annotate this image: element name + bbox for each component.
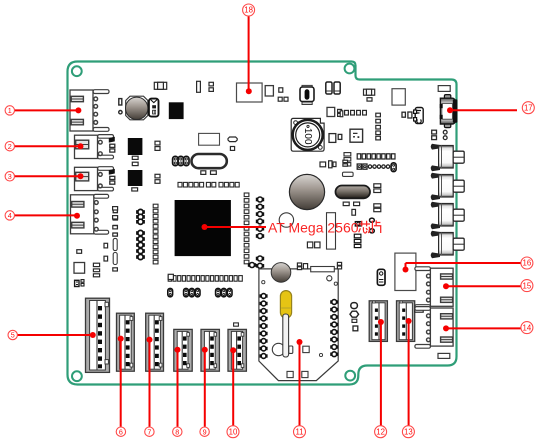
callout 9 <box>200 427 209 436</box>
white IC (199,133) <box>199 133 220 145</box>
yellow capacitor on module <box>280 291 291 318</box>
connector 12 <box>369 301 387 342</box>
module small squares <box>287 346 309 377</box>
module right hole column <box>330 300 338 357</box>
white ring (286,220) <box>279 213 293 227</box>
svg-text:18: 18 <box>244 6 253 15</box>
inductor L1 "100" <box>291 118 324 151</box>
vertical part (197,81) <box>197 81 201 92</box>
svg-text:5: 5 <box>11 331 15 340</box>
small rect (327,107) <box>327 107 335 116</box>
pads below crystal <box>201 171 217 175</box>
red leader line 8 <box>175 347 181 427</box>
red leader line 11 <box>297 339 303 426</box>
connector 15 (4-pin right) <box>415 267 453 309</box>
header hole group (5) left of chip <box>136 230 145 259</box>
vertical hole trio group B (216-232,292) <box>216 288 232 296</box>
connector 10 <box>228 329 246 371</box>
red leader line 10 <box>230 347 236 426</box>
crystal Y1 <box>192 154 227 168</box>
IC (350,129) <box>350 129 363 142</box>
red leader line 4 <box>14 213 80 219</box>
module left hole column <box>260 294 268 359</box>
transistor pack (415,107) <box>414 108 424 124</box>
resistor (363,89) <box>364 89 375 101</box>
tiny pads (278,88) <box>278 88 288 101</box>
white rect above USB <box>438 86 450 92</box>
parts above module <box>297 262 341 269</box>
callout 12 <box>375 426 387 438</box>
red leader line 18 <box>246 16 252 94</box>
white bar (342,172) <box>343 172 354 176</box>
red leader line 15 <box>443 283 521 289</box>
white square (74,262) <box>74 263 85 274</box>
vertical slots (113,238) <box>113 238 117 264</box>
pad column (344,152) <box>344 153 351 166</box>
black chip S1 (169,102) <box>169 102 184 119</box>
svg-text:10: 10 <box>229 427 238 436</box>
svg-text:8: 8 <box>175 427 179 436</box>
svg-text:3: 3 <box>8 172 12 181</box>
red leader line 3 <box>14 173 83 179</box>
RTC battery module (item 11) <box>259 263 338 381</box>
red leader line 9 <box>202 347 208 427</box>
dark pill (335,185) <box>336 186 371 199</box>
label chinese char 'xin' <box>358 221 370 233</box>
small can beside capacitor <box>149 99 159 117</box>
connector 5 (large bottom header) <box>86 298 110 372</box>
small part (229,136) <box>228 137 237 150</box>
pads below pill <box>343 202 359 215</box>
callout 11 <box>294 426 306 438</box>
callout 5 <box>8 330 17 339</box>
small rect right of IC18 <box>265 86 273 96</box>
pads right of connector 1 <box>119 99 122 114</box>
header hole group (3) left of chip <box>136 209 145 224</box>
module stem <box>272 314 293 357</box>
dual pad row A (356,153) <box>357 154 395 159</box>
black chip S3 (128,170) <box>128 170 143 186</box>
IC 16 (white box) <box>395 253 416 290</box>
red leader line 5 <box>18 332 96 338</box>
board outline <box>68 62 457 385</box>
dual pad row B with holes (359,163) <box>357 163 396 172</box>
svg-text:15: 15 <box>523 281 532 290</box>
mounting hole top-left <box>72 66 82 76</box>
callout 17 <box>522 102 534 114</box>
callout 14 <box>521 322 533 334</box>
svg-text:17: 17 <box>524 103 533 112</box>
svg-text:11: 11 <box>295 427 303 436</box>
pads right of S2 <box>155 141 160 150</box>
svg-text:6: 6 <box>119 427 123 436</box>
pads right of connector 4 <box>113 210 117 236</box>
svg-text:16: 16 <box>523 259 532 268</box>
parts right of connector 2 <box>109 137 115 152</box>
svg-text:14: 14 <box>523 323 532 332</box>
svg-text:12: 12 <box>376 427 385 436</box>
connector 3 (2-pin, left edge) <box>75 167 114 191</box>
bars right of connector 13 <box>415 306 423 312</box>
svg-text:9: 9 <box>203 427 207 436</box>
mini USB connector (item 17) <box>440 95 458 128</box>
mounting hole bottom-right <box>345 371 355 381</box>
pad pair (209,82) <box>209 82 213 91</box>
red leader line 6 <box>118 336 124 427</box>
pad column (376,113) <box>376 113 381 140</box>
red leader line 1 <box>14 107 81 113</box>
svg-text:7: 7 <box>147 427 151 436</box>
chip pad row bottom <box>168 276 242 282</box>
connector 9 <box>201 329 219 371</box>
callout 7 <box>145 427 154 436</box>
pads right of S3 <box>155 174 160 183</box>
pads (402,112) and (408,112) <box>402 112 412 118</box>
connector 4 (4-pin, left edge) <box>71 194 109 234</box>
red leader line 7 <box>147 337 153 427</box>
label chinese char 'pian' <box>372 220 381 233</box>
pad (77,250) <box>77 250 82 254</box>
electrolytic capacitor C (octagon + sphere) <box>126 96 148 120</box>
connector 2 (2-pin, left edge) <box>75 135 114 159</box>
microcontroller U1 AT Mega 2560 <box>175 200 231 256</box>
pad trio (93,263) <box>93 263 99 277</box>
callout 4 <box>5 211 14 220</box>
callout 2 <box>5 142 14 151</box>
vertical hole trio group A (184-200,292) <box>184 288 200 296</box>
connector 14 (4-pin right) <box>415 307 453 349</box>
tall white rect (326,213) <box>327 213 336 249</box>
parts right of connector 3 <box>109 169 115 184</box>
two vertical caps (326,82) <box>326 82 340 94</box>
red leader line 16 <box>403 263 521 273</box>
pads left of jacks <box>432 130 447 139</box>
white square (392,89) <box>392 89 405 105</box>
callout 16 <box>521 257 533 269</box>
pad below connector 14 area <box>438 353 450 358</box>
jack connector D <box>431 231 465 258</box>
callout 1 <box>5 106 14 115</box>
svg-text:1: 1 <box>8 106 12 115</box>
pad pairs right (374,184) <box>374 184 381 212</box>
pads and vias near label <box>354 218 374 248</box>
small parts (320,161) <box>320 160 348 168</box>
svg-text:2: 2 <box>8 142 12 151</box>
callout 18 <box>243 4 255 16</box>
connector 13 <box>397 301 415 342</box>
svg-text:4: 4 <box>8 211 12 220</box>
svg-text:13: 13 <box>404 427 413 436</box>
chip pad column left <box>153 204 158 264</box>
connector 6 <box>117 313 135 371</box>
red leader line 17 <box>447 107 517 113</box>
mounting hole bottom-left <box>72 371 82 381</box>
pad row (340-368,111) small row under notch <box>340 111 343 117</box>
red leader line 2 <box>14 143 83 149</box>
red leader line 13 <box>406 318 412 426</box>
red leader line 14 <box>443 325 521 331</box>
callout 6 <box>116 427 125 436</box>
callout 3 <box>5 172 14 181</box>
svg-text:AT Mega 2560: AT Mega 2560 <box>268 219 359 235</box>
left small pads column (113,206-271) <box>113 207 118 271</box>
pad above connector 10 <box>234 323 239 326</box>
header hole column right of chip <box>256 197 264 268</box>
oval hole (170,292) <box>168 288 173 296</box>
pads left of tall rect <box>307 242 320 248</box>
red leader line 12 <box>378 319 384 426</box>
svg-text:100: 100 <box>302 128 313 145</box>
chip pad row top <box>178 182 239 187</box>
pad row (337-368,109) <box>338 109 367 116</box>
IC 18 (white rect top middle) <box>237 83 263 102</box>
small parts (75,280) <box>75 280 84 287</box>
red leader line chip <box>202 224 267 230</box>
callout 10 <box>227 426 239 438</box>
parts right of module (350,302) <box>350 303 359 331</box>
mounting hole top-right <box>345 64 355 74</box>
connector 1 (4-pin, left edge) <box>70 90 109 132</box>
callout 13 <box>402 426 414 438</box>
resistor R near top (154,81) <box>154 82 166 89</box>
chip pad column right <box>244 193 249 264</box>
pads (168,274) <box>168 274 173 279</box>
callout 8 <box>173 427 182 436</box>
pad pair (104,243) <box>104 243 108 261</box>
tantalum cap (300,86) <box>300 85 314 104</box>
buzzer SP1 (big dark circle) <box>289 174 324 209</box>
black chip S2 (128,138) <box>128 138 143 155</box>
pad below S3 <box>132 188 138 191</box>
jack connector A (right edge) <box>431 144 465 171</box>
connector 8 <box>174 329 192 371</box>
jack connector B <box>431 173 465 200</box>
callout 15 <box>521 280 533 292</box>
pads below S2 <box>132 156 138 165</box>
connector 7 <box>146 313 164 371</box>
hole pair left of module <box>248 263 256 268</box>
three transistors row (172,156) <box>173 156 189 165</box>
small can above IC16 (377,269) <box>377 269 385 285</box>
pads right of inductor <box>329 134 342 143</box>
jack connector C <box>431 202 465 229</box>
